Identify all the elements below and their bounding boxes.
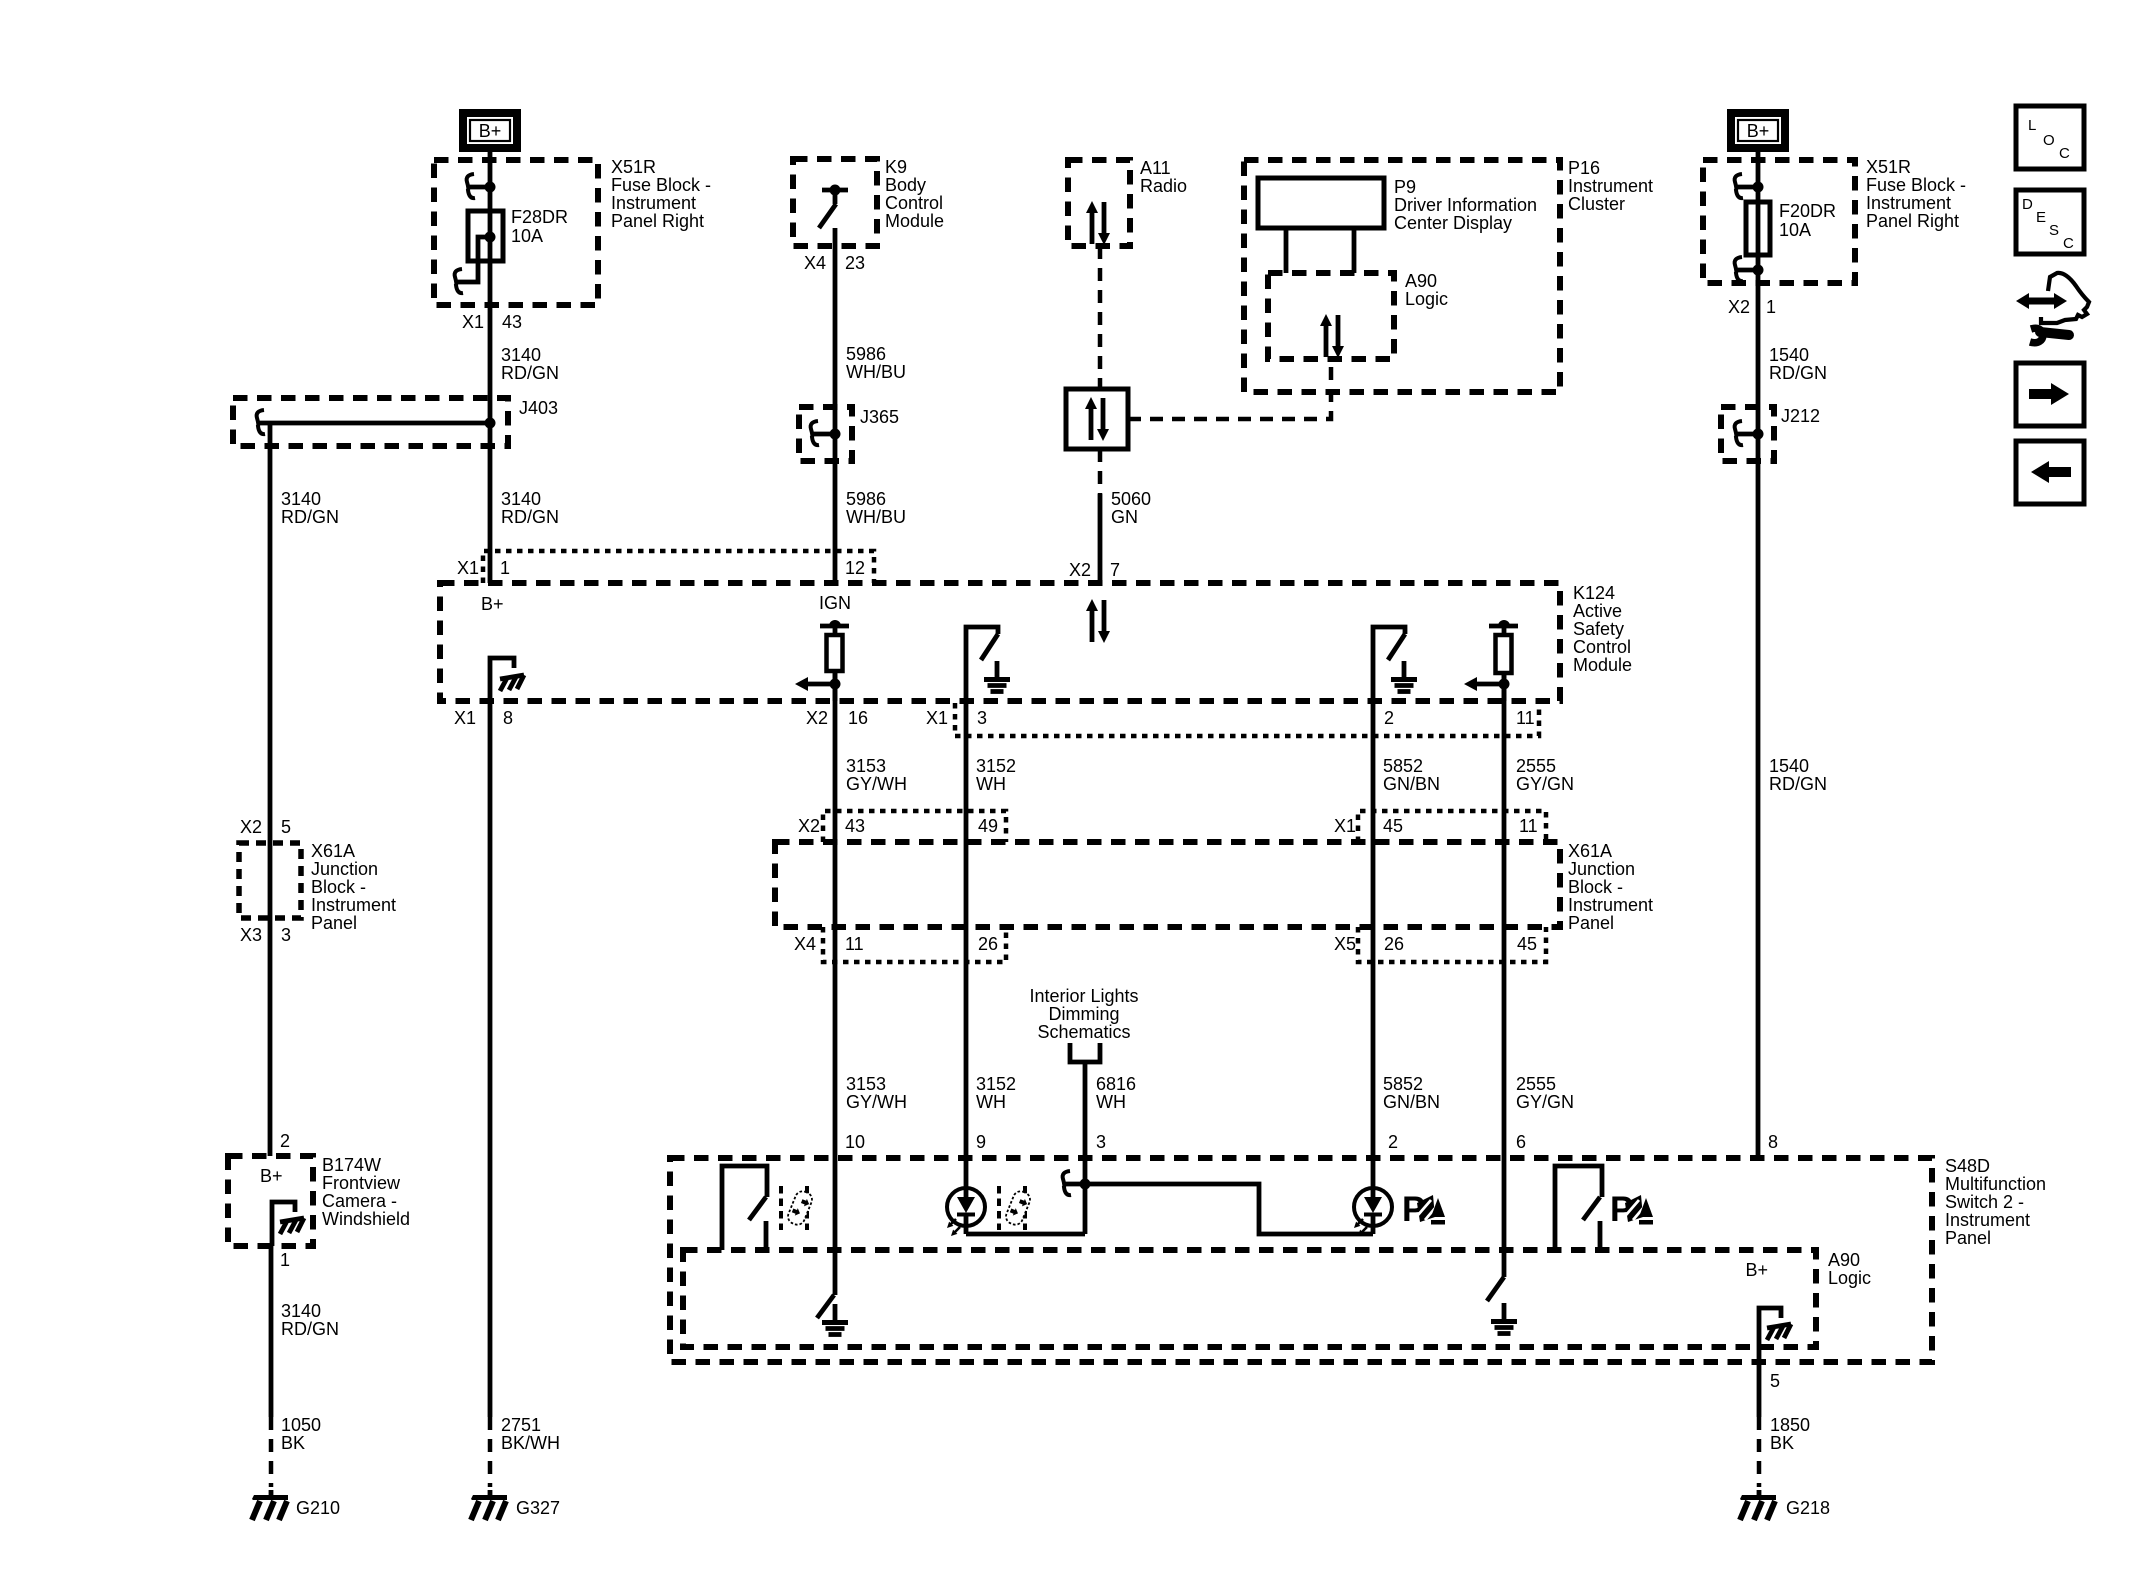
svg-text:J403: J403 bbox=[519, 398, 558, 418]
fuse block X51R left box bbox=[434, 157, 711, 305]
svg-text:E: E bbox=[2036, 209, 2046, 226]
module K124 box bbox=[440, 583, 1632, 701]
label 1540 RD/GN mid bbox=[1769, 756, 1827, 794]
svg-text:Block -: Block - bbox=[1568, 877, 1623, 897]
module K9 box bbox=[793, 157, 944, 246]
icon arrow next bbox=[2016, 363, 2084, 426]
wire branch to LED 2 bbox=[1085, 1184, 1373, 1234]
svg-text:A11: A11 bbox=[1140, 158, 1171, 178]
svg-text:GN/BN: GN/BN bbox=[1383, 1092, 1440, 1112]
camera internal ground bbox=[272, 1202, 295, 1246]
svg-text:23: 23 bbox=[845, 253, 865, 273]
camera B174W box bbox=[228, 1155, 410, 1246]
svg-text:3152: 3152 bbox=[976, 756, 1016, 776]
clip J365 bbox=[812, 432, 835, 437]
fuse block X51R right box bbox=[1703, 157, 1966, 283]
wire pin 3 bbox=[1083, 1158, 1088, 1234]
wire 1850 BK bbox=[1757, 1347, 1762, 1417]
pin X4 23 labels bbox=[804, 253, 865, 273]
svg-text:D: D bbox=[2022, 196, 2033, 213]
svg-text:RD/GN: RD/GN bbox=[281, 1319, 339, 1339]
wire pin 10 with switch to ground bbox=[833, 1158, 838, 1295]
lower wire labels bbox=[846, 1074, 907, 1112]
pin labels S48D bbox=[845, 1132, 1778, 1152]
serial data arrows in A11 bbox=[1086, 201, 1110, 245]
svg-text:X3: X3 bbox=[240, 925, 262, 945]
svg-text:GY/GN: GY/GN bbox=[1516, 774, 1574, 794]
svg-text:GN/BN: GN/BN bbox=[1383, 774, 1440, 794]
logic A90 box in S48D bbox=[683, 1250, 1871, 1347]
off-page connector bracket bbox=[1070, 1043, 1100, 1062]
switch contact left (lane keep) bbox=[722, 1166, 767, 1250]
svg-text:J212: J212 bbox=[1781, 406, 1820, 426]
svg-text:X2: X2 bbox=[240, 817, 262, 837]
svg-text:G327: G327 bbox=[516, 1498, 560, 1518]
svg-text:Windshield: Windshield bbox=[322, 1209, 410, 1229]
svg-text:GY/GN: GY/GN bbox=[1516, 1092, 1574, 1112]
ground G210 bbox=[252, 1490, 288, 1520]
svg-text:2: 2 bbox=[1384, 708, 1394, 728]
svg-text:10: 10 bbox=[845, 1132, 865, 1152]
svg-text:S: S bbox=[2049, 222, 2059, 239]
clip top of F20DR bbox=[1736, 185, 1758, 190]
svg-text:X1: X1 bbox=[1334, 816, 1356, 836]
svg-text:BK/WH: BK/WH bbox=[501, 1433, 560, 1453]
svg-text:Panel Right: Panel Right bbox=[1866, 211, 1959, 231]
svg-text:X4: X4 bbox=[794, 934, 816, 954]
svg-text:3140: 3140 bbox=[501, 489, 541, 509]
svg-text:BK: BK bbox=[281, 1433, 305, 1453]
svg-text:1850: 1850 bbox=[1770, 1415, 1810, 1435]
svg-text:Junction: Junction bbox=[1568, 859, 1635, 879]
icon LOC bbox=[2016, 106, 2084, 169]
resistor IGN in K124 bbox=[820, 620, 849, 701]
svg-text:3: 3 bbox=[977, 708, 987, 728]
svg-text:Body: Body bbox=[885, 175, 926, 195]
svg-text:3152: 3152 bbox=[976, 1074, 1016, 1094]
svg-text:3: 3 bbox=[1096, 1132, 1106, 1152]
A90 internal ground bbox=[1759, 1308, 1781, 1347]
svg-text:GN: GN bbox=[1111, 507, 1138, 527]
pin X2 1 labels bbox=[1728, 297, 1776, 317]
icon park assist 1 bbox=[1402, 1190, 1445, 1229]
svg-text:1: 1 bbox=[500, 558, 510, 578]
svg-text:Panel: Panel bbox=[311, 913, 357, 933]
svg-text:1050: 1050 bbox=[281, 1415, 321, 1435]
svg-text:X5: X5 bbox=[1334, 934, 1356, 954]
logic A90 box in P16 bbox=[1268, 271, 1448, 359]
label wire 3140 RD/GN mid bbox=[501, 489, 559, 527]
svg-text:F28DR: F28DR bbox=[511, 207, 568, 227]
svg-text:8: 8 bbox=[1768, 1132, 1778, 1152]
svg-text:Module: Module bbox=[1573, 655, 1632, 675]
LED indicator pin 2 bbox=[1371, 1158, 1376, 1189]
svg-text:11: 11 bbox=[845, 934, 864, 954]
wire 3140 RD/GN left drop bbox=[268, 423, 273, 1156]
svg-text:43: 43 bbox=[502, 312, 522, 332]
svg-text:Interior Lights: Interior Lights bbox=[1029, 986, 1138, 1006]
svg-text:1: 1 bbox=[280, 1250, 290, 1270]
svg-text:11: 11 bbox=[1516, 708, 1535, 728]
svg-text:Control: Control bbox=[1573, 637, 1631, 657]
arrow output pin 11 bbox=[1477, 682, 1504, 687]
svg-text:C: C bbox=[2063, 235, 2074, 252]
svg-text:3: 3 bbox=[281, 925, 291, 945]
svg-text:3140: 3140 bbox=[281, 1301, 321, 1321]
switch S48D box bbox=[670, 1156, 2046, 1362]
icon lane-keep car bbox=[781, 1186, 814, 1230]
splice J365 bbox=[799, 407, 899, 461]
svg-text:Safety: Safety bbox=[1573, 619, 1624, 639]
svg-text:Dimming: Dimming bbox=[1048, 1004, 1119, 1024]
svg-text:WH/BU: WH/BU bbox=[846, 362, 906, 382]
svg-text:Schematics: Schematics bbox=[1037, 1022, 1130, 1042]
svg-text:Radio: Radio bbox=[1140, 176, 1187, 196]
svg-text:2: 2 bbox=[280, 1131, 290, 1151]
wire 5986 WH/BU bbox=[833, 228, 838, 583]
svg-text:G218: G218 bbox=[1786, 1498, 1830, 1518]
svg-text:Logic: Logic bbox=[1828, 1268, 1871, 1288]
svg-text:Fuse Block -: Fuse Block - bbox=[1866, 175, 1966, 195]
clip on pin 3 wire bbox=[1064, 1182, 1085, 1187]
wire 3153 GY/WH (x=835) bbox=[833, 671, 838, 1158]
wire 5852 GN/BN (x=1373) bbox=[1371, 701, 1376, 1158]
svg-text:RD/GN: RD/GN bbox=[1769, 774, 1827, 794]
label wire 3140 RD/GN lower bbox=[281, 1301, 339, 1339]
svg-text:Module: Module bbox=[885, 211, 944, 231]
svg-text:5852: 5852 bbox=[1383, 1074, 1423, 1094]
connector row bottom X61A bbox=[823, 927, 1006, 962]
svg-text:BK: BK bbox=[1770, 1433, 1794, 1453]
icon DESC bbox=[2016, 190, 2084, 254]
svg-text:45: 45 bbox=[1383, 816, 1403, 836]
svg-text:X2: X2 bbox=[798, 816, 820, 836]
svg-text:26: 26 bbox=[978, 934, 998, 954]
svg-text:49: 49 bbox=[978, 816, 998, 836]
svg-text:WH: WH bbox=[976, 1092, 1006, 1112]
svg-text:Instrument: Instrument bbox=[611, 193, 696, 213]
svg-text:GY/WH: GY/WH bbox=[846, 774, 907, 794]
svg-text:2: 2 bbox=[1388, 1132, 1398, 1152]
svg-text:2555: 2555 bbox=[1516, 1074, 1556, 1094]
wire 5060 GN bbox=[1098, 449, 1103, 494]
svg-text:Instrument: Instrument bbox=[1568, 176, 1653, 196]
K124 internal ground pin X1-8 bbox=[490, 658, 514, 701]
icon service arrows bbox=[2016, 273, 2089, 323]
svg-text:G210: G210 bbox=[296, 1498, 340, 1518]
svg-text:5: 5 bbox=[281, 817, 291, 837]
svg-text:A90: A90 bbox=[1405, 271, 1437, 291]
svg-text:IGN: IGN bbox=[819, 593, 851, 613]
svg-text:A90: A90 bbox=[1828, 1250, 1860, 1270]
svg-text:3153: 3153 bbox=[846, 1074, 886, 1094]
wire 2751 BK/WH (x=490 down) bbox=[488, 701, 493, 1417]
svg-text:S48D: S48D bbox=[1945, 1156, 1990, 1176]
svg-text:7: 7 bbox=[1110, 560, 1120, 580]
svg-text:GY/WH: GY/WH bbox=[846, 1092, 907, 1112]
svg-text:X51R: X51R bbox=[1866, 157, 1911, 177]
svg-text:B+: B+ bbox=[1745, 1260, 1768, 1280]
svg-text:K9: K9 bbox=[885, 157, 907, 177]
svg-text:26: 26 bbox=[1384, 934, 1404, 954]
svg-text:Control: Control bbox=[885, 193, 943, 213]
svg-text:9: 9 bbox=[976, 1132, 986, 1152]
svg-text:X2: X2 bbox=[806, 708, 828, 728]
wire 1050 BK bbox=[269, 1246, 274, 1417]
splice J212 bbox=[1721, 406, 1820, 461]
serial data arrows pin X2-7 in K124 bbox=[1086, 599, 1110, 643]
svg-text:B174W: B174W bbox=[322, 1155, 381, 1175]
switch in K9 bbox=[819, 185, 848, 229]
svg-text:L: L bbox=[2028, 117, 2036, 134]
svg-text:2555: 2555 bbox=[1516, 756, 1556, 776]
svg-text:45: 45 bbox=[1517, 934, 1537, 954]
svg-text:Instrument: Instrument bbox=[1945, 1210, 2030, 1230]
serial data arrows in A90 bbox=[1320, 314, 1344, 358]
connector row top of K124 bbox=[483, 551, 874, 583]
wire J403 horizontal bbox=[258, 421, 490, 426]
svg-text:Active: Active bbox=[1573, 601, 1622, 621]
svg-text:WH/BU: WH/BU bbox=[846, 507, 906, 527]
svg-text:3153: 3153 bbox=[846, 756, 886, 776]
svg-text:5060: 5060 bbox=[1111, 489, 1151, 509]
switch to ground pin X1-3 in K124 bbox=[966, 627, 1010, 701]
svg-text:RD/GN: RD/GN bbox=[501, 507, 559, 527]
svg-text:X1: X1 bbox=[462, 312, 484, 332]
junction block X61A left bbox=[239, 841, 396, 933]
svg-text:X51R: X51R bbox=[611, 157, 656, 177]
svg-text:X1: X1 bbox=[926, 708, 948, 728]
svg-text:Driver Information: Driver Information bbox=[1394, 195, 1537, 215]
svg-text:X2: X2 bbox=[1728, 297, 1750, 317]
clip J212 bbox=[1736, 432, 1758, 437]
svg-text:11: 11 bbox=[1519, 816, 1538, 836]
svg-text:5: 5 bbox=[1770, 1371, 1780, 1391]
svg-text:5986: 5986 bbox=[846, 344, 886, 364]
svg-text:16: 16 bbox=[848, 708, 868, 728]
svg-text:X1: X1 bbox=[454, 708, 476, 728]
svg-text:B+: B+ bbox=[260, 1166, 283, 1186]
wire 6816 WH bbox=[1083, 1062, 1088, 1158]
svg-text:Camera -: Camera - bbox=[322, 1191, 397, 1211]
svg-text:43: 43 bbox=[845, 816, 865, 836]
LED indicator pin 9 bbox=[964, 1158, 969, 1189]
ground G218 bbox=[1740, 1490, 1776, 1520]
switch to ground pin 2 in K124 bbox=[1373, 627, 1417, 701]
svg-text:B+: B+ bbox=[479, 121, 502, 141]
svg-text:B+: B+ bbox=[481, 594, 504, 614]
svg-text:2751: 2751 bbox=[501, 1415, 541, 1435]
icon wrench bbox=[2030, 328, 2069, 342]
svg-text:RD/GN: RD/GN bbox=[1769, 363, 1827, 383]
svg-text:WH: WH bbox=[1096, 1092, 1126, 1112]
svg-text:RD/GN: RD/GN bbox=[501, 363, 559, 383]
node junction dot J403 bbox=[485, 418, 496, 429]
svg-text:5852: 5852 bbox=[1383, 756, 1423, 776]
clip in J403 bbox=[257, 410, 265, 434]
svg-text:Instrument: Instrument bbox=[1568, 895, 1653, 915]
svg-text:Logic: Logic bbox=[1405, 289, 1448, 309]
power B+ left bbox=[463, 113, 517, 148]
dashed data wire to A90 bbox=[1128, 359, 1331, 419]
label wire 3140 RD/GN bbox=[281, 489, 339, 527]
svg-text:Instrument: Instrument bbox=[311, 895, 396, 915]
wire B+ feed down (x=490) bbox=[488, 152, 493, 583]
icon arrow back bbox=[2016, 441, 2084, 504]
svg-text:Center Display: Center Display bbox=[1394, 213, 1512, 233]
svg-text:Fuse Block -: Fuse Block - bbox=[611, 175, 711, 195]
svg-text:O: O bbox=[2043, 132, 2055, 149]
svg-text:RD/GN: RD/GN bbox=[281, 507, 339, 527]
connector row top X61A bbox=[823, 811, 1006, 842]
svg-text:Panel: Panel bbox=[1945, 1228, 1991, 1248]
wire right feed (x=1758) bbox=[1756, 152, 1761, 1158]
svg-text:Junction: Junction bbox=[311, 859, 378, 879]
svg-text:Panel Right: Panel Right bbox=[611, 211, 704, 231]
svg-text:6: 6 bbox=[1516, 1132, 1526, 1152]
svg-text:X4: X4 bbox=[804, 253, 826, 273]
svg-text:1540: 1540 bbox=[1769, 756, 1809, 776]
svg-text:X1: X1 bbox=[457, 558, 479, 578]
svg-text:Switch 2 -: Switch 2 - bbox=[1945, 1192, 2024, 1212]
wire 2555 GY/GN (x=1504) bbox=[1502, 673, 1507, 1158]
svg-text:Block -: Block - bbox=[311, 877, 366, 897]
svg-text:Frontview: Frontview bbox=[322, 1173, 401, 1193]
resistor pin 11 in K124 bbox=[1489, 620, 1518, 701]
junction block X61A box bbox=[775, 841, 1653, 933]
arrow output IGN bbox=[808, 682, 835, 687]
svg-text:10A: 10A bbox=[511, 226, 543, 246]
svg-text:Cluster: Cluster bbox=[1568, 194, 1625, 214]
dashed data wire bbox=[1098, 246, 1103, 389]
svg-text:X61A: X61A bbox=[311, 841, 355, 861]
splice J403 bbox=[233, 398, 558, 446]
svg-text:10A: 10A bbox=[1779, 220, 1811, 240]
svg-text:6816: 6816 bbox=[1096, 1074, 1136, 1094]
svg-text:P16: P16 bbox=[1568, 158, 1600, 178]
ground G327 bbox=[471, 1490, 507, 1520]
power B+ right bbox=[1731, 113, 1785, 148]
wire 3152 WH (x=966) bbox=[964, 701, 969, 1158]
label wire 1540 RD/GN bbox=[1769, 345, 1827, 383]
clip bottom of F20DR bbox=[1736, 268, 1758, 273]
wire P9 legs bbox=[1284, 228, 1289, 273]
wire LED9 bottom bbox=[966, 1232, 1085, 1237]
svg-text:5986: 5986 bbox=[846, 489, 886, 509]
svg-text:8: 8 bbox=[503, 708, 513, 728]
svg-text:J365: J365 bbox=[860, 407, 899, 427]
svg-text:3140: 3140 bbox=[281, 489, 321, 509]
pin X2 5 labels bbox=[240, 817, 291, 837]
svg-text:Panel: Panel bbox=[1568, 913, 1614, 933]
pin X3 3 labels bbox=[240, 925, 291, 945]
label wire 3140 RD/GN right bbox=[501, 345, 559, 383]
svg-text:1540: 1540 bbox=[1769, 345, 1809, 365]
svg-text:3140: 3140 bbox=[501, 345, 541, 365]
serial data gateway box bbox=[1066, 389, 1128, 449]
switch contact right (park) bbox=[1555, 1166, 1602, 1250]
svg-text:K124: K124 bbox=[1573, 583, 1615, 603]
svg-text:Instrument: Instrument bbox=[1866, 193, 1951, 213]
svg-text:B+: B+ bbox=[1747, 121, 1770, 141]
fuse F20DR 10A bbox=[1746, 201, 1836, 255]
icon lane-keep car 2 bbox=[999, 1186, 1032, 1230]
svg-text:P9: P9 bbox=[1394, 177, 1416, 197]
svg-text:WH: WH bbox=[976, 774, 1006, 794]
svg-text:F20DR: F20DR bbox=[1779, 201, 1836, 221]
clip top of fuse bbox=[468, 185, 490, 190]
svg-text:X61A: X61A bbox=[1568, 841, 1612, 861]
svg-text:X2: X2 bbox=[1069, 560, 1091, 580]
label 5986 WH/BU lower bbox=[846, 489, 906, 527]
svg-text:C: C bbox=[2059, 145, 2070, 162]
connector row bottom of K124 bbox=[955, 703, 1539, 736]
icon park assist 2 bbox=[1610, 1190, 1653, 1229]
wire pin 6 with switch to ground bbox=[1502, 1158, 1507, 1277]
svg-text:1: 1 bbox=[1766, 297, 1776, 317]
radio A11 box bbox=[1068, 158, 1187, 246]
cluster P16 box bbox=[1244, 158, 1653, 392]
svg-text:Multifunction: Multifunction bbox=[1945, 1174, 2046, 1194]
pin X1 43 labels bbox=[462, 312, 522, 332]
svg-text:12: 12 bbox=[845, 558, 865, 578]
fuse F28DR 10A bbox=[455, 207, 568, 293]
display P9 bbox=[1258, 177, 1537, 233]
